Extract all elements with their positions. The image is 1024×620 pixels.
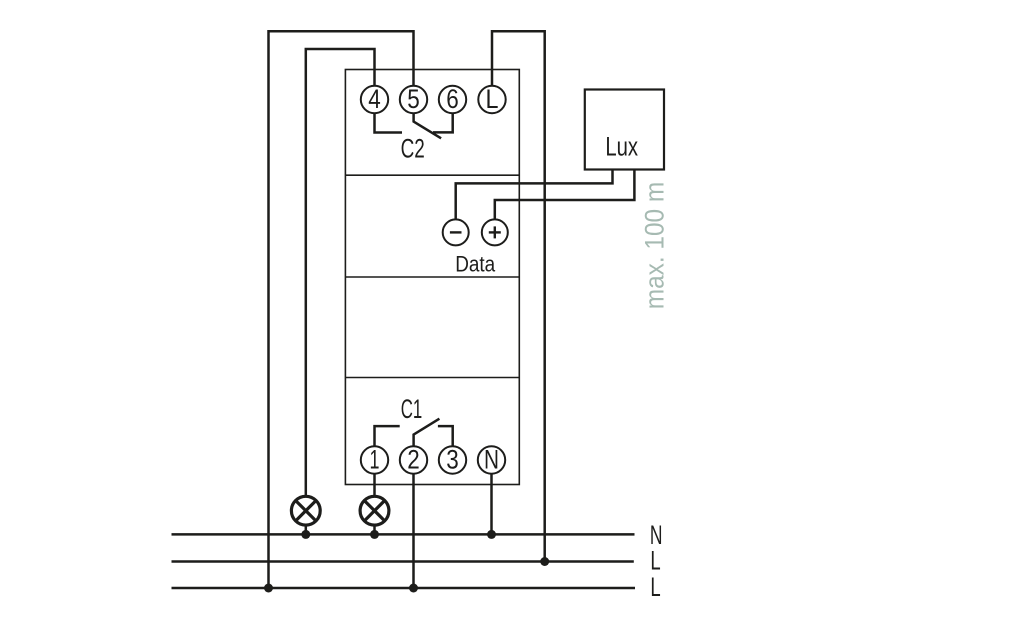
wire from terminal 1 to lamp E2 xyxy=(373,474,376,497)
svg-text:C1: C1 xyxy=(401,394,423,424)
wire lamp E1 to N line xyxy=(305,525,308,535)
section divider 1 xyxy=(345,174,519,176)
contact C2 fixed contact from terminal 6 xyxy=(433,113,453,132)
wire Data plus to Lux sensor xyxy=(495,170,635,219)
svg-text:3: 3 xyxy=(446,445,459,475)
contact C2 fixed contact from terminal 4 xyxy=(375,113,403,132)
section divider 2 xyxy=(345,276,519,278)
svg-text:2: 2 xyxy=(407,445,420,475)
wire from terminal 2 to bottom L line xyxy=(412,474,415,588)
svg-text:max. 100 m: max. 100 m xyxy=(639,182,669,310)
lamp E1 xyxy=(291,496,320,525)
wire from terminal N to N line xyxy=(490,474,493,535)
contact C2 blade from terminal 5 xyxy=(414,113,442,138)
terminal 3 xyxy=(439,446,466,473)
wire Data minus to Lux sensor xyxy=(456,170,613,219)
svg-text:Lux: Lux xyxy=(605,132,638,162)
junction terminal 2 wire / bottom L line xyxy=(409,584,418,593)
terminal 1 xyxy=(361,446,388,473)
junction lamp E1 / N line xyxy=(301,530,310,539)
svg-text:Data: Data xyxy=(455,251,495,276)
contact C1 fixed contact from terminal 3 xyxy=(438,426,453,446)
section divider 3 xyxy=(345,377,519,379)
contact C1 blade to terminal 2 xyxy=(414,419,440,447)
device outline xyxy=(345,70,519,485)
Data minus sign xyxy=(450,231,462,233)
svg-text:4: 4 xyxy=(368,84,381,114)
wire from terminal 5 to bottom L line xyxy=(269,31,414,588)
wire from terminal L to middle L line xyxy=(492,31,545,561)
svg-text:C2: C2 xyxy=(401,134,425,164)
junction lamp E2 / N line xyxy=(370,530,379,539)
svg-text:5: 5 xyxy=(407,84,420,114)
Lux sensor box xyxy=(585,90,664,170)
terminal 5 xyxy=(400,86,427,113)
terminal Data minus xyxy=(443,219,469,245)
L bus line middle xyxy=(172,560,634,563)
svg-text:1: 1 xyxy=(370,445,380,475)
junction terminal N wire / N line xyxy=(487,530,496,539)
wire lamp E2 to N line xyxy=(373,525,376,535)
svg-text:L: L xyxy=(650,572,660,602)
N bus line xyxy=(172,533,635,536)
Data plus sign xyxy=(489,226,501,238)
L bus line bottom xyxy=(172,587,636,590)
terminal 2 xyxy=(400,446,427,473)
junction terminal L wire / middle L line xyxy=(540,557,549,566)
junction left wire / bottom L line xyxy=(264,584,273,593)
terminal 6 xyxy=(439,86,466,113)
terminal Data plus xyxy=(482,219,508,245)
svg-text:N: N xyxy=(484,445,499,475)
svg-text:L: L xyxy=(486,84,499,114)
wire from terminal 4 to lamp E1 xyxy=(306,49,375,497)
lamp E2 xyxy=(360,496,389,525)
terminal 4 xyxy=(361,86,388,113)
contact C1 fixed contact from terminal 1 xyxy=(375,426,400,446)
terminal L xyxy=(478,86,505,113)
terminal N xyxy=(478,446,505,473)
svg-text:6: 6 xyxy=(446,84,459,114)
